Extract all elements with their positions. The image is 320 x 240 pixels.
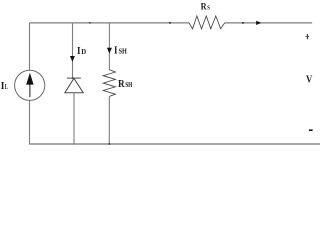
label - terminal: [309, 129, 313, 131]
wire left vertical (current source branch): [29, 23, 31, 145]
svg-text:V: V: [306, 75, 313, 86]
svg-text:I: I: [114, 46, 118, 57]
label + terminal: [306, 34, 310, 39]
wire diode branch lower: [73, 93, 75, 145]
junction dot at diode bar: [72, 77, 74, 79]
resistor RS (horizontal zigzag): [189, 16, 225, 29]
junction dot c (right lead of Rs): [242, 22, 244, 24]
svg-text:SH: SH: [125, 81, 133, 89]
wire bottom horizontal (ground return): [30, 143, 320, 145]
svg-text:R: R: [118, 78, 125, 90]
svg-text:I: I: [77, 45, 81, 57]
wire diode branch upper: [72, 23, 74, 78]
current source arrow (points up): [26, 73, 33, 97]
svg-text:L: L: [5, 83, 8, 91]
junction dot at RSH bottom: [108, 143, 110, 145]
junction dot b (left lead of Rs): [169, 22, 171, 24]
svg-text:D: D: [81, 47, 86, 56]
current source U IL (circle): [15, 70, 45, 100]
svg-text:SH: SH: [119, 48, 128, 56]
svg-text:S: S: [207, 5, 210, 12]
arrow ISH (points down on shunt branch): [107, 48, 112, 54]
arrow ID (points down on diode branch): [70, 56, 75, 62]
arrow output current (points right): [256, 21, 261, 25]
wire top horizontal (node between IL/D/RSH and Rs): [29, 22, 312, 24]
wire RSH branch upper: [108, 23, 110, 70]
resistor RSH (vertical zigzag): [103, 70, 115, 97]
junction dot a: [89, 22, 91, 24]
wire RSH branch lower: [108, 96, 110, 144]
diode D (triangle up with cathode bar on top): [65, 78, 84, 93]
